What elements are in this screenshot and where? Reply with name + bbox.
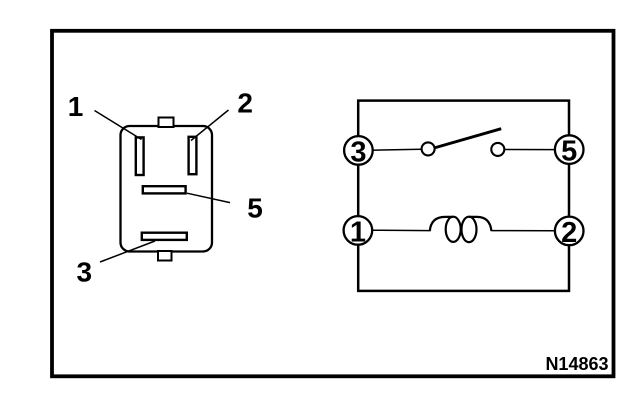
relay connector body xyxy=(121,126,213,252)
figure number N14863 xyxy=(545,354,608,374)
figure border frame xyxy=(52,31,614,377)
terminal 5 xyxy=(555,135,584,167)
svg-text:N14863: N14863 xyxy=(545,354,608,374)
wire terminal 1 to coil xyxy=(371,229,431,231)
svg-text:5: 5 xyxy=(247,193,263,224)
svg-text:5: 5 xyxy=(561,136,577,168)
coil left lead hump xyxy=(430,217,453,231)
wire terminal 3 to fixed contact xyxy=(371,149,421,150)
pin 3 slot xyxy=(142,233,187,240)
svg-text:2: 2 xyxy=(561,217,577,249)
svg-text:1: 1 xyxy=(350,216,366,248)
switch contact right xyxy=(491,143,504,156)
switch arm xyxy=(435,129,501,148)
label 2 xyxy=(237,87,253,118)
switch contact left xyxy=(422,142,435,155)
svg-text:3: 3 xyxy=(77,256,93,287)
terminal 3 xyxy=(344,136,373,168)
label 3 xyxy=(77,256,93,287)
relay schematic box xyxy=(358,101,569,291)
leader line to pin 5 xyxy=(187,193,230,202)
coil loop 1 xyxy=(446,217,461,242)
bottom locating tab xyxy=(158,251,172,261)
pin 1 slot xyxy=(136,137,144,175)
svg-text:2: 2 xyxy=(237,87,253,118)
label 1 xyxy=(68,91,84,122)
leader line to pin 2 xyxy=(191,110,229,141)
terminal 1 xyxy=(344,216,373,248)
top locating tab xyxy=(159,118,174,128)
svg-text:3: 3 xyxy=(350,136,366,168)
pin 2 slot xyxy=(189,137,197,174)
pin 5 slot xyxy=(143,186,186,193)
terminal 2 xyxy=(555,217,584,249)
leader line to pin 1 xyxy=(95,111,142,140)
wire movable contact to terminal 5 xyxy=(505,149,556,151)
coil loop 2 xyxy=(462,217,477,242)
svg-text:1: 1 xyxy=(68,91,84,122)
leader line to pin 3 xyxy=(100,241,155,262)
coil right lead hump xyxy=(469,217,491,231)
wire coil to terminal 2 xyxy=(491,230,556,232)
label 5 xyxy=(247,193,263,224)
